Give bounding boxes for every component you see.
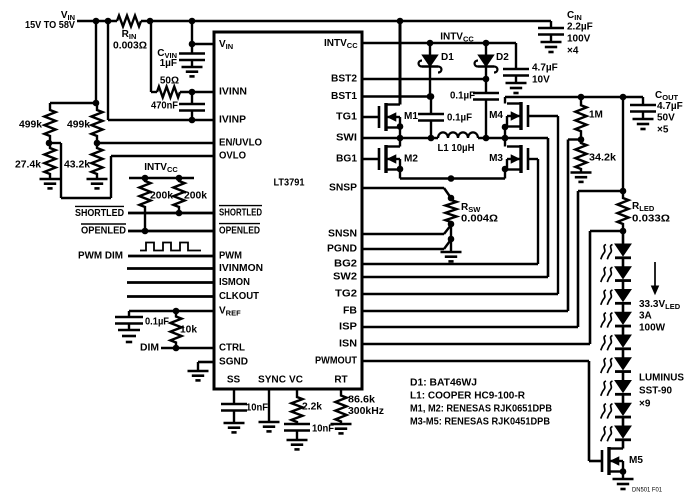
svg-text:10V: 10V [532,75,550,86]
svg-text:OPENLED: OPENLED [81,226,126,237]
svg-text:SNSP: SNSP [329,183,357,194]
svg-text:470nF: 470nF [151,101,178,112]
svg-text:RT: RT [334,375,347,386]
svg-text:50V: 50V [657,113,675,124]
svg-text:M4: M4 [489,110,503,121]
svg-text:×5: ×5 [657,125,669,136]
svg-text:SS: SS [227,375,241,386]
svg-text:SW2: SW2 [333,272,357,283]
svg-text:0.1µF: 0.1µF [145,317,169,328]
svg-text:PWM: PWM [219,251,242,262]
svg-text:0.1µF: 0.1µF [450,91,475,102]
svg-text:ISN: ISN [339,339,357,350]
svg-text:VC: VC [289,375,303,386]
svg-text:0.033Ω: 0.033Ω [632,214,670,225]
svg-text:15V TO 58V: 15V TO 58V [25,20,75,31]
svg-text:IVINP: IVINP [219,115,246,126]
svg-text:PWM DIM: PWM DIM [78,251,123,262]
svg-text:IVINMON: IVINMON [219,263,263,274]
svg-text:BST2: BST2 [331,74,357,85]
svg-text:SYNC: SYNC [258,375,286,386]
svg-text:M3-M5: RENESAS RJK0451DPB: M3-M5: RENESAS RJK0451DPB [410,417,550,428]
svg-text:100V: 100V [567,34,591,45]
svg-text:SST-90: SST-90 [639,386,672,397]
svg-text:EN/UVLO: EN/UVLO [219,138,262,149]
svg-text:1M: 1M [589,110,603,121]
svg-text:L1: COOPER HC9-100-R: L1: COOPER HC9-100-R [410,391,526,402]
svg-text:ISMON: ISMON [219,277,250,288]
svg-text:SNSN: SNSN [328,229,357,240]
svg-text:M1, M2: RENESAS RJK0651DPB: M1, M2: RENESAS RJK0651DPB [410,404,552,415]
svg-text:300kHz: 300kHz [348,406,384,417]
svg-text:10nF: 10nF [246,403,268,414]
svg-text:4.7µF: 4.7µF [657,101,683,112]
svg-text:LUMINUS: LUMINUS [639,373,684,384]
svg-text:200k: 200k [184,191,207,202]
svg-text:10k: 10k [180,325,197,336]
svg-text:10nF: 10nF [312,424,334,435]
svg-text:CTRL: CTRL [219,343,245,354]
svg-text:34.2k: 34.2k [589,153,616,164]
svg-text:L1 10µH: L1 10µH [438,143,475,154]
svg-text:0.004Ω: 0.004Ω [461,214,498,225]
svg-text:SWI: SWI [336,133,357,144]
svg-text:D1: BAT46WJ: D1: BAT46WJ [410,378,477,389]
svg-text:M5: M5 [629,455,643,466]
svg-text:M1: M1 [404,111,418,122]
svg-text:×4: ×4 [567,46,579,57]
svg-text:100W: 100W [639,323,666,334]
svg-text:27.4k: 27.4k [15,160,41,171]
svg-text:BG2: BG2 [334,259,357,270]
svg-text:OPENLED: OPENLED [219,226,260,237]
svg-text:TG2: TG2 [335,289,357,300]
svg-text:200k: 200k [150,191,173,202]
svg-text:499k: 499k [67,120,90,131]
svg-text:2.2k: 2.2k [302,402,322,413]
svg-text:D1: D1 [441,52,454,63]
svg-text:PWMOUT: PWMOUT [315,356,357,367]
svg-text:1µF: 1µF [160,58,177,69]
svg-text:BST1: BST1 [331,91,357,102]
svg-text:DN501 F01: DN501 F01 [632,488,663,494]
svg-text:0.1µF: 0.1µF [447,113,472,124]
svg-text:SHORTLED: SHORTLED [75,208,124,219]
svg-text:FB: FB [343,306,357,317]
svg-text:4.7µF: 4.7µF [532,63,558,74]
svg-text:50Ω: 50Ω [160,76,179,87]
svg-text:TG1: TG1 [336,112,357,123]
svg-text:DIM: DIM [140,343,159,354]
svg-text:499k: 499k [19,120,42,131]
svg-text:2.2µF: 2.2µF [567,22,593,33]
svg-text:IVINN: IVINN [219,87,247,98]
svg-text:D2: D2 [496,52,509,63]
svg-text:CLKOUT: CLKOUT [219,291,259,302]
svg-text:×9: ×9 [639,399,651,410]
svg-text:PGND: PGND [327,244,357,255]
svg-text:M3: M3 [489,153,503,164]
svg-text:LT3791: LT3791 [274,178,305,189]
svg-text:ISP: ISP [339,322,357,333]
svg-text:SHORTLED: SHORTLED [219,208,262,219]
svg-text:3A: 3A [639,311,652,322]
svg-text:OVLO: OVLO [219,151,246,162]
svg-text:SGND: SGND [219,357,248,368]
svg-text:M2: M2 [404,154,418,165]
svg-text:86.6k: 86.6k [348,395,375,406]
svg-text:43.2k: 43.2k [64,160,90,171]
svg-text:0.003Ω: 0.003Ω [113,41,147,52]
svg-text:BG1: BG1 [336,154,357,165]
